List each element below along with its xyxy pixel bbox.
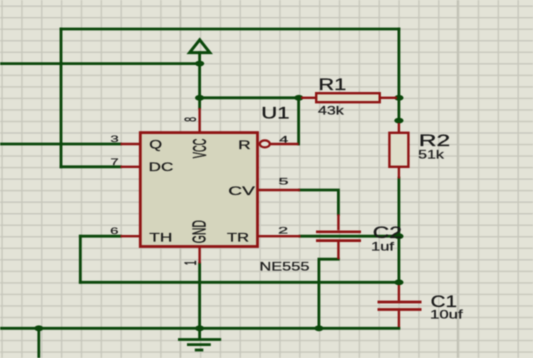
svg-text:CV: CV — [228, 185, 255, 198]
svg-text:NE555: NE555 — [260, 259, 310, 273]
node junction dots — [34, 61, 403, 332]
pin 4 stub — [268, 143, 299, 145]
svg-text:51k: 51k — [418, 147, 445, 161]
power terminal arrow — [190, 40, 210, 53]
wire power arrow to pin 8 — [198, 53, 201, 108]
wire TH loop horizontal — [80, 281, 399, 284]
svg-text:4: 4 — [279, 135, 288, 145]
svg-text:R: R — [238, 139, 251, 152]
svg-text:DC: DC — [149, 161, 174, 174]
svg-text:GND: GND — [191, 220, 211, 243]
svg-text:43k: 43k — [318, 104, 345, 118]
pin 1 stub — [198, 247, 200, 264]
svg-text:1uf: 1uf — [371, 240, 395, 254]
value labels — [260, 104, 464, 322]
wire bottom rail — [0, 327, 399, 330]
wire pin 5 to C2 top — [300, 190, 339, 214]
svg-text:Q: Q — [149, 138, 162, 151]
node R1 right — [394, 95, 403, 101]
IC U1 NE555 timer body — [140, 133, 257, 247]
node bottom-left — [34, 325, 43, 331]
pin 5 stub — [258, 189, 301, 191]
node vcc row at pin 8 — [195, 95, 204, 101]
svg-text:8: 8 — [181, 117, 200, 122]
node R2 top — [394, 118, 403, 124]
svg-text:U1: U1 — [261, 105, 289, 123]
svg-text:6: 6 — [110, 226, 118, 236]
pin 2 stub — [258, 235, 301, 237]
svg-text:R1: R1 — [318, 76, 346, 94]
pin 8 stub — [198, 108, 200, 133]
wire right rail lower — [397, 178, 400, 283]
capacitor C2 — [316, 214, 361, 259]
pin 3 stub — [121, 143, 141, 145]
pin number labels — [110, 117, 288, 265]
svg-text:3: 3 — [110, 134, 118, 144]
capacitor C1 — [378, 285, 422, 327]
wire bottom-left stub down — [37, 328, 40, 358]
wire pin 1 to ground — [198, 264, 201, 329]
svg-text:1: 1 — [181, 261, 200, 266]
pin stubs (red) — [121, 108, 301, 264]
IC pin name labels — [149, 138, 256, 244]
node C2 branch / bottom rail — [314, 325, 323, 331]
node R1 left — [294, 95, 303, 101]
wire top rail — [61, 28, 399, 31]
svg-text:TR: TR — [227, 232, 249, 245]
pin 4 reset bubble — [260, 140, 270, 147]
svg-text:10uf: 10uf — [430, 309, 464, 321]
resistor R1 — [301, 93, 397, 102]
wire right rail upper — [397, 29, 400, 122]
svg-text:7: 7 — [110, 157, 118, 167]
reference designator labels — [261, 76, 457, 311]
wire branch down to pin 4 — [297, 98, 300, 144]
svg-text:TH: TH — [149, 232, 172, 245]
wire TH loop vertical — [79, 236, 82, 282]
wire pin 2 to right rail — [300, 235, 399, 238]
svg-text:5: 5 — [278, 177, 288, 187]
wire left vertical — [60, 29, 63, 167]
pin 7 stub — [121, 166, 141, 168]
wire upper-left horizontal — [0, 62, 200, 65]
svg-text:VCC: VCC — [191, 139, 211, 159]
node pin1 / bottom rail — [195, 325, 204, 331]
pin 6 stub — [121, 235, 141, 237]
ground — [178, 328, 221, 350]
node pin2 wire / right rail — [394, 233, 403, 239]
resistor R2 — [389, 123, 408, 179]
wire to pin 3 — [0, 143, 121, 146]
wire vcc row to R1 — [200, 96, 301, 99]
svg-text:2: 2 — [278, 226, 288, 236]
wire C2 bottom jog — [319, 259, 339, 328]
svg-text:C1: C1 — [431, 293, 457, 311]
node arrow/left-wire — [195, 61, 204, 67]
node C1 top — [394, 279, 403, 285]
wire to pin 6 — [80, 235, 120, 238]
wire to pin 7 — [61, 165, 121, 168]
